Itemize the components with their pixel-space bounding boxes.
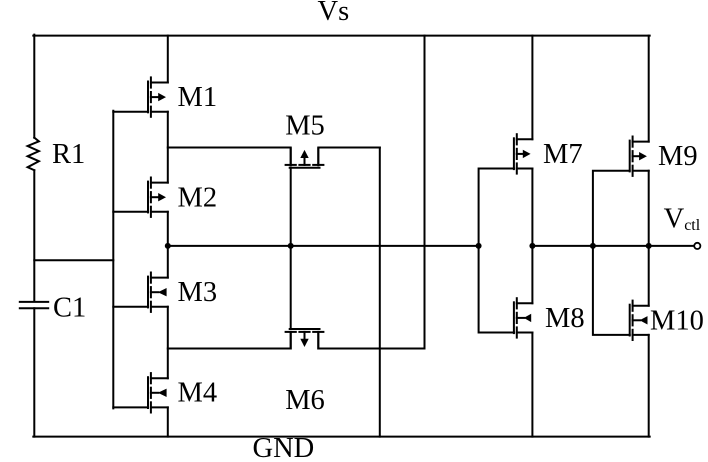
svg-text:M5: M5 xyxy=(285,110,325,141)
wire: mid node to M3 drain xyxy=(167,246,169,278)
transistor M9 (gate bar, channel, drain/source stubs, arrow) xyxy=(630,137,649,176)
svg-text:M3: M3 xyxy=(178,277,218,308)
transistor M8 (gate bar, channel, drain/source stubs, arrow) xyxy=(514,298,533,337)
wire: mid line from M2/M3 node to M7/M8 gate xyxy=(168,245,479,247)
transistor M6 (rotated: gate bar, channel, stubs, arrow) xyxy=(286,329,324,349)
capacitor C1 (two plates) xyxy=(20,301,48,303)
ground rail GND (bottom) xyxy=(33,436,649,438)
svg-text:GND: GND xyxy=(253,433,315,462)
wire: M5/M6 common gate vertical xyxy=(290,168,292,329)
wire: R1 down to C1 top plate xyxy=(33,170,35,301)
wire: M10 source to GND rail xyxy=(648,335,650,437)
transistor M1 (gate bar, channel, drain/source stubs, arrow) xyxy=(148,77,168,116)
svg-text:Vs: Vs xyxy=(318,0,350,27)
svg-text:M4: M4 xyxy=(178,378,218,409)
node: Vctl output junction xyxy=(646,243,652,249)
wire: M2 gate lead xyxy=(113,211,148,213)
wire: riser up to Vs rail xyxy=(424,36,426,349)
wire: M8 source to GND rail xyxy=(531,333,533,437)
wire: Vs rail to M7 drain xyxy=(531,36,533,140)
transistor M2 (gate bar, channel, drain/source stubs, arrow) xyxy=(148,178,168,217)
node: M7 source / M8 drain junction on mid line xyxy=(529,243,535,249)
resistor R1 (zigzag) xyxy=(28,138,39,171)
node: M7/M8 gate junction on mid line xyxy=(476,243,482,249)
wire: M9 source to Vctl node xyxy=(648,171,650,246)
node: M2/M3 junction on mid line xyxy=(165,243,171,249)
terminal: Vctl open circle xyxy=(694,243,700,249)
svg-text:C1: C1 xyxy=(53,293,86,324)
wire: M4 gate lead xyxy=(113,406,148,408)
svg-text:M8: M8 xyxy=(545,303,585,334)
transistor M10 (gate bar, channel, drain/source stubs, arrow) xyxy=(630,301,649,340)
wire: Vs rail to M1 drain xyxy=(167,36,169,83)
transistor M4 (gate bar, channel, drain/source stubs, arrow) xyxy=(148,373,168,412)
wire: M1 source to M2 drain xyxy=(167,112,169,183)
wire: M3 gate lead xyxy=(113,306,148,308)
wire: M7 source to M8 drain xyxy=(531,169,533,304)
svg-text:M2: M2 xyxy=(178,182,218,213)
wire: M5 right terminal over to GND drop xyxy=(318,148,380,166)
wire: M4 source to GND rail xyxy=(167,407,169,436)
wire: M7 gate lead and common gate vertical to M8 gate lead xyxy=(479,169,514,333)
transistor M7 (gate bar, channel, drain/source stubs, arrow) xyxy=(514,134,533,173)
transistor M5 (rotated: gate bar, channel, stubs, arrow) xyxy=(286,148,324,168)
wire: M9 gate lead and common gate vertical to M10 gate lead xyxy=(593,171,630,335)
wire: left edge, Vs rail down to R1 xyxy=(33,35,35,138)
svg-text:Vctl: Vctl xyxy=(664,203,701,234)
wire: M3/M4 column to M6 left terminal xyxy=(168,332,291,348)
wire: C1 bottom plate down to GND rail xyxy=(33,308,35,436)
wire: M3 source to M4 drain xyxy=(167,307,169,378)
wire: Vctl node to M10 drain xyxy=(648,246,650,306)
svg-text:M6: M6 xyxy=(285,385,325,416)
wire: M5 right drop down to GND rail xyxy=(379,148,381,437)
wire: left edge tap to gate bus (node between R1 and C1) xyxy=(34,259,113,261)
svg-text:M7: M7 xyxy=(543,139,583,170)
node: M9/M10 gate junction on mid line xyxy=(590,243,596,249)
wire: Vs rail (right edge) to M9 drain xyxy=(648,36,650,142)
wire: M2 source to mid node xyxy=(167,212,169,246)
node: M5/M6 gate junction on mid line xyxy=(288,243,294,249)
svg-text:M1: M1 xyxy=(178,82,218,113)
svg-text:M9: M9 xyxy=(658,141,698,172)
transistor M3 (gate bar, channel, drain/source stubs, arrow) xyxy=(148,273,168,312)
wire: M1 gate lead xyxy=(113,111,148,113)
wire: common gate bus of M1-M4 (vertical) xyxy=(112,111,114,409)
wire: mid line from M7/M8 drain column to Vctl terminal xyxy=(532,245,694,247)
svg-text:M10: M10 xyxy=(650,306,704,337)
power rail Vs (top) xyxy=(33,35,649,37)
wire: M1/M2 node to M5 left terminal xyxy=(168,148,291,166)
svg-text:R1: R1 xyxy=(52,139,85,170)
wire: M6 right terminal to riser xyxy=(318,332,424,348)
